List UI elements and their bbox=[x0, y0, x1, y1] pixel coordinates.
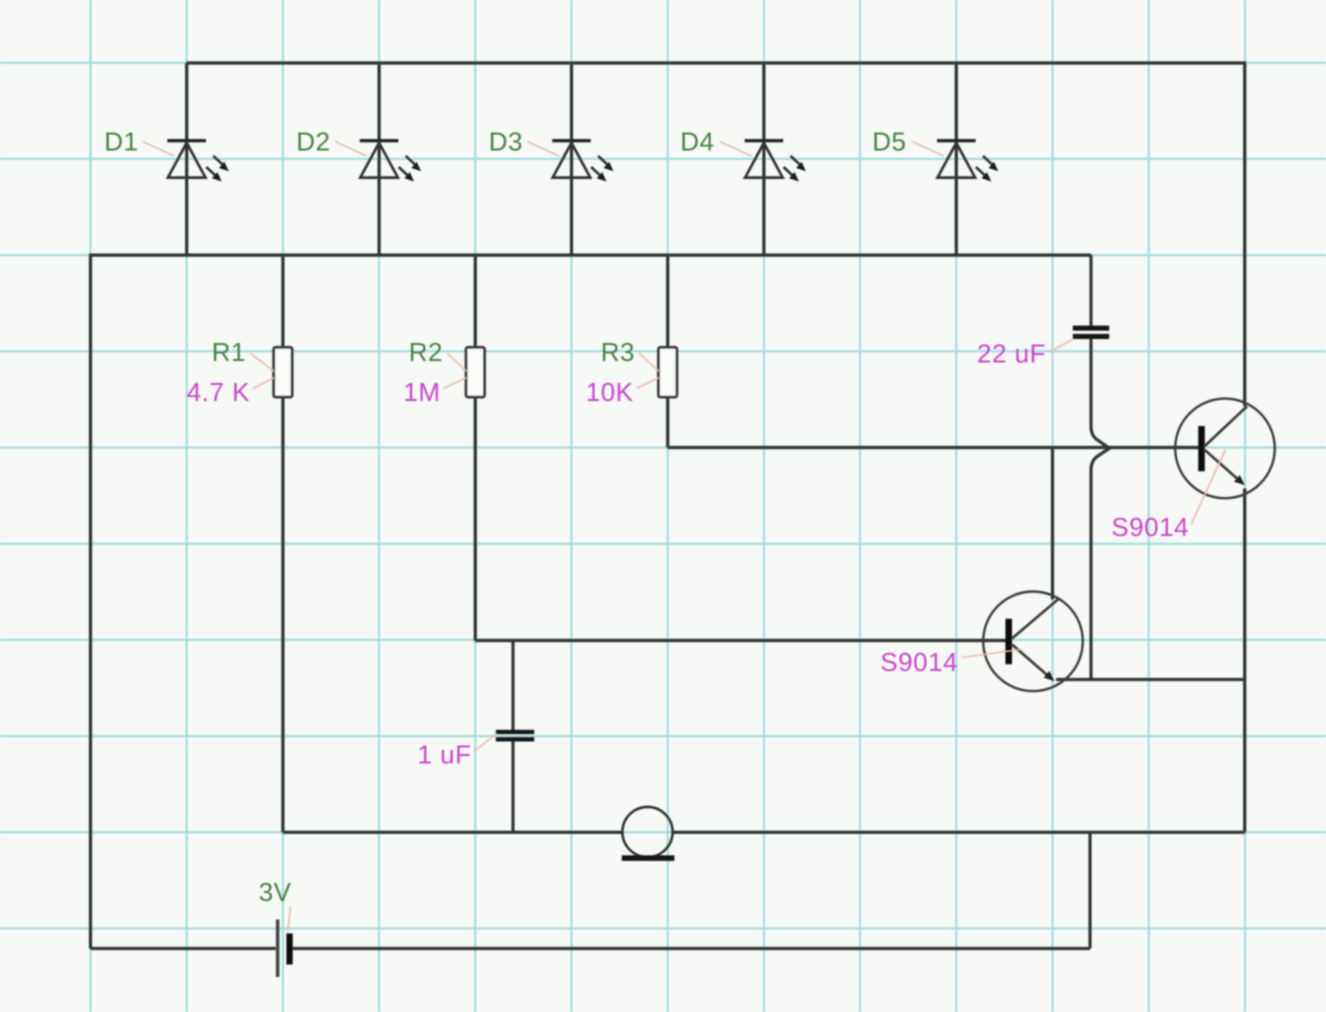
LED D4 bbox=[745, 141, 806, 182]
wire right rail upper segment bbox=[1243, 62, 1246, 407]
wire right rail lower segment bbox=[1243, 489, 1246, 833]
wire LED D4 column bbox=[762, 63, 765, 255]
wire Q2 emitter to right rail bbox=[1056, 678, 1245, 681]
resistor R1 body bbox=[274, 347, 292, 397]
wire 22uF upper lead bbox=[1089, 255, 1092, 326]
wire Q2 collector drop bbox=[1051, 448, 1054, 600]
leader line D1 bbox=[143, 142, 175, 157]
wire Q2 base wire bbox=[475, 639, 1005, 642]
wire bottom drop to battery bus bbox=[1088, 832, 1091, 948]
svg-text:D2: D2 bbox=[296, 127, 330, 157]
wire bottom node right of buzzer bbox=[672, 831, 1244, 834]
leader line 3V bbox=[288, 907, 291, 933]
wire top bus (LED anode rail) bbox=[187, 61, 1245, 64]
leader line D5 bbox=[912, 142, 944, 157]
svg-text:10K: 10K bbox=[586, 377, 634, 407]
leader line 10K bbox=[637, 378, 660, 389]
leader line R1 bbox=[250, 353, 274, 372]
svg-text:D3: D3 bbox=[489, 127, 523, 157]
wire LED D2 column bbox=[378, 63, 381, 255]
leader line 22 uF bbox=[1050, 340, 1073, 353]
LED D2 bbox=[360, 141, 421, 182]
wire battery bus right bbox=[293, 947, 1090, 950]
svg-text:D4: D4 bbox=[680, 127, 714, 157]
wire Q1 base wire bbox=[668, 446, 1199, 449]
wire LED D3 column bbox=[570, 63, 573, 255]
wire R1 lower lead to bottom node bbox=[281, 397, 284, 833]
wire LED D5 column bbox=[955, 63, 958, 255]
svg-text:R1: R1 bbox=[212, 337, 246, 367]
wire R1 upper lead bbox=[281, 255, 284, 348]
svg-text:R2: R2 bbox=[409, 337, 443, 367]
capacitor C2 1uF bbox=[496, 730, 534, 742]
leader line D4 bbox=[720, 142, 752, 157]
transistor Q1 S9014 bbox=[1175, 399, 1275, 499]
leader line D2 bbox=[335, 142, 367, 157]
wire R3 lower lead bbox=[666, 397, 669, 448]
leader line 1M bbox=[444, 378, 467, 389]
battery BT1 3V bbox=[276, 920, 293, 978]
resistor R2 body bbox=[466, 347, 484, 397]
wire LED D1 column bbox=[185, 63, 188, 255]
leader line D3 bbox=[528, 142, 560, 157]
svg-text:22 uF: 22 uF bbox=[977, 339, 1046, 369]
wire battery bus left bbox=[91, 947, 276, 950]
wire R2 lower lead bbox=[474, 397, 477, 641]
svg-text:4.7 K: 4.7 K bbox=[187, 377, 250, 407]
transistor Q2 S9014 bbox=[983, 592, 1083, 692]
leader line 4.7 K bbox=[253, 378, 274, 389]
svg-text:3V: 3V bbox=[259, 877, 292, 907]
svg-text:D5: D5 bbox=[872, 127, 906, 157]
leader line S9014 Q2 bbox=[962, 650, 1021, 658]
wire R2 upper lead bbox=[474, 255, 477, 348]
LED D5 bbox=[937, 141, 998, 182]
leader line R2 bbox=[447, 353, 467, 372]
svg-text:S9014: S9014 bbox=[880, 647, 958, 677]
resistor R3 body bbox=[659, 347, 677, 397]
svg-text:D1: D1 bbox=[104, 127, 138, 157]
leader line 1 uF bbox=[474, 734, 497, 752]
LED D3 bbox=[552, 141, 613, 182]
buzzer BZ1 (piezo sounder) bbox=[622, 807, 675, 861]
wire 1uF lower lead bbox=[511, 741, 514, 832]
wire R3 upper lead bbox=[666, 255, 669, 348]
svg-text:1 uF: 1 uF bbox=[417, 740, 471, 770]
wire bottom node left of buzzer bbox=[283, 831, 623, 834]
wire 22uF lower lead with hop over base wire bbox=[1091, 339, 1110, 680]
wire second bus (cathode rail) bbox=[91, 254, 1092, 257]
LED D1 bbox=[167, 141, 228, 182]
wire 1uF upper lead bbox=[511, 641, 514, 731]
svg-text:S9014: S9014 bbox=[1111, 512, 1189, 542]
leader line R3 bbox=[639, 353, 659, 372]
svg-text:1M: 1M bbox=[403, 377, 440, 407]
leader line S9014 Q1 bbox=[1191, 450, 1226, 525]
wire left rail bbox=[89, 254, 92, 949]
capacitor C1 22uF bbox=[1073, 326, 1109, 339]
svg-text:R3: R3 bbox=[601, 337, 635, 367]
